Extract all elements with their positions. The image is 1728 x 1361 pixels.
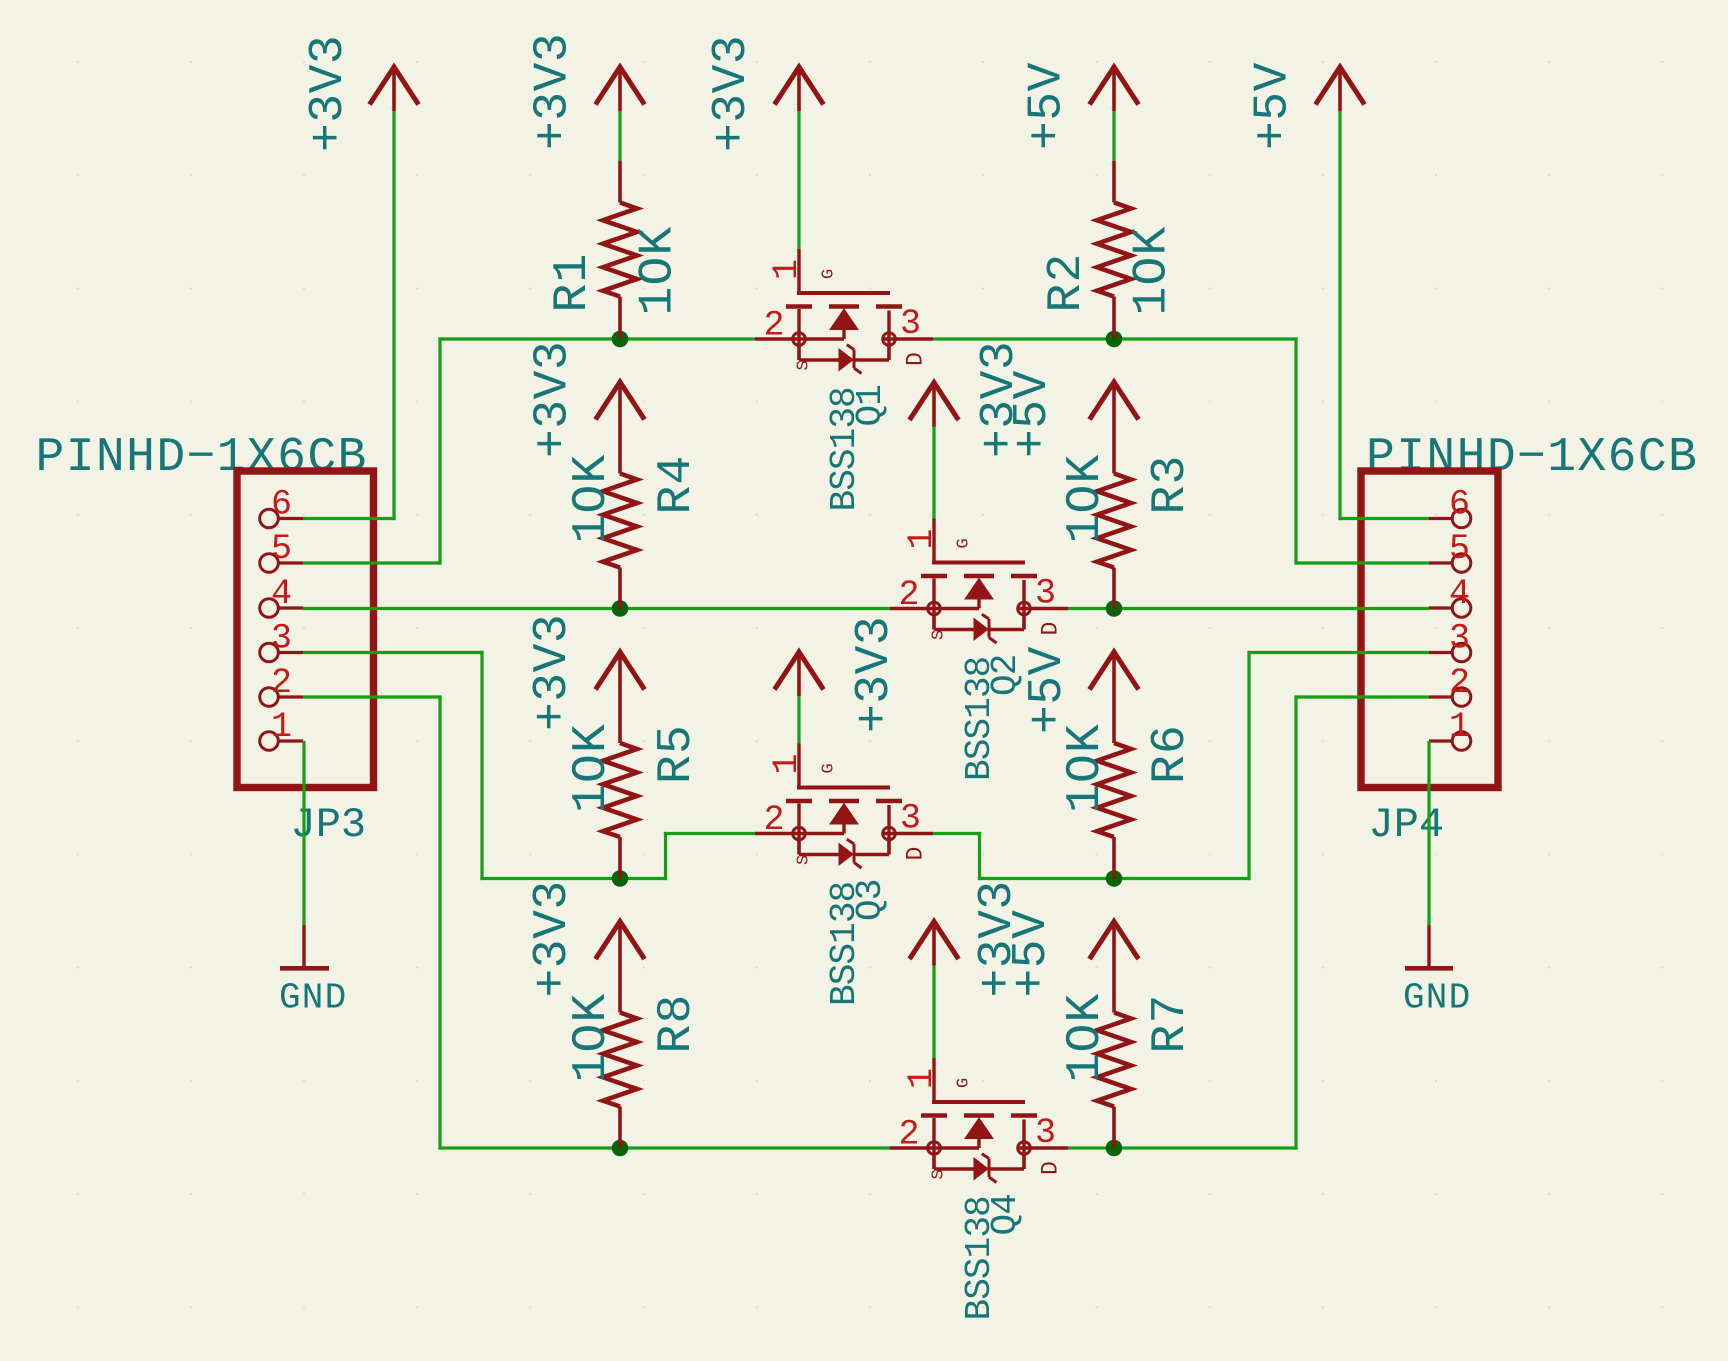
junction R4/row2 — [612, 600, 629, 617]
svg-text:+5V: +5V — [1006, 370, 1060, 458]
svg-text:3: 3 — [1449, 619, 1470, 659]
svg-text:1OK: 1OK — [565, 723, 619, 813]
pin 5 of JP3 — [279, 561, 303, 564]
wire Q4 gate net — [932, 966, 935, 1059]
svg-text:GND: GND — [1403, 978, 1471, 1019]
svg-text:1OK: 1OK — [1059, 453, 1113, 543]
pin 3 of JP3 — [279, 651, 303, 654]
svg-text:+5V: +5V — [1247, 62, 1301, 150]
svg-text:PINHD−1X6CB: PINHD−1X6CB — [36, 431, 368, 485]
resistor R8 10K — [603, 1013, 637, 1107]
svg-text:2: 2 — [271, 663, 292, 703]
svg-text:R3: R3 — [1144, 454, 1198, 514]
power symbol +5V A4 (R2) — [1090, 67, 1139, 105]
junction R7/row4 — [1106, 1140, 1123, 1157]
svg-text:R8: R8 — [650, 993, 704, 1053]
wire Q3 gate net — [797, 696, 800, 744]
resistor R4 10K — [603, 474, 637, 568]
svg-text:3: 3 — [271, 619, 292, 659]
pin 1 of JP3 — [279, 739, 303, 742]
power symbol +5V A5 (JP4 pin6) — [1316, 67, 1365, 105]
svg-text:1: 1 — [902, 528, 942, 549]
resistor R7 10K — [1097, 1013, 1131, 1107]
resistor R1 10K — [618, 161, 622, 203]
svg-text:4: 4 — [1449, 574, 1470, 614]
svg-text:GND: GND — [279, 978, 347, 1019]
svg-text:4: 4 — [271, 574, 292, 614]
svg-text:S: S — [795, 360, 814, 370]
pin 3 of JP4 — [1429, 651, 1452, 654]
svg-text:5: 5 — [271, 529, 292, 569]
wire row4 left segment — [438, 1146, 890, 1149]
wire row4 right segment (Q4 drain to JP4 pin2) — [1068, 1146, 1298, 1149]
pin 1 of JP4 — [1429, 739, 1452, 742]
svg-text:2: 2 — [899, 1115, 920, 1155]
wire Q2 gate net — [932, 427, 935, 519]
transistor Q1 BSS138 — [797, 249, 800, 293]
pin 5 of JP4 — [1429, 561, 1452, 564]
svg-text:G: G — [820, 763, 839, 773]
power symbol +3V3 A12 (R8) — [596, 922, 645, 960]
wire row2 (JP3 pin4 to Q2 source) — [303, 607, 890, 610]
transistor Q3 BSS138 — [797, 744, 800, 788]
svg-text:JP4: JP4 — [1369, 801, 1445, 849]
power symbol +5V A8 (R3) — [1090, 382, 1139, 420]
wire row3 left segment — [480, 877, 667, 880]
resistor R2 10K — [1112, 161, 1116, 203]
resistor R5 10K — [603, 743, 637, 837]
svg-text:+5V: +5V — [1005, 910, 1059, 998]
svg-text:Q4: Q4 — [985, 1194, 1026, 1235]
svg-text:1: 1 — [767, 259, 807, 280]
transistor Q2 BSS138 — [932, 519, 935, 563]
svg-text:Q1: Q1 — [850, 385, 891, 426]
power symbol +3V3 A3 (Q1 gate) — [775, 67, 824, 105]
power symbol +5V A11 (R6) — [1090, 652, 1139, 690]
svg-text:6: 6 — [271, 485, 292, 525]
wire R2 top — [1112, 111, 1115, 161]
svg-text:+5V: +5V — [1021, 62, 1075, 150]
power symbol +3V3 A6 (R4) — [596, 382, 645, 420]
svg-text:1OK: 1OK — [1059, 723, 1113, 813]
power symbol +3V3 A9 (R5) — [596, 652, 645, 690]
wire JP3 pin3 to riser 482 down to row3 — [303, 651, 484, 654]
svg-text:+5V: +5V — [1021, 646, 1075, 734]
junction R8/row4 — [612, 1140, 629, 1157]
svg-text:Q2: Q2 — [985, 655, 1026, 696]
wire +5V arrow A5 down to JP4 pin6 — [1338, 111, 1341, 520]
junction R2/row1 — [1106, 331, 1123, 348]
svg-text:R1: R1 — [546, 252, 600, 312]
svg-text:R5: R5 — [650, 724, 704, 784]
pin 2 of JP4 — [1429, 695, 1452, 698]
svg-text:2: 2 — [899, 575, 920, 615]
svg-text:G: G — [955, 1078, 974, 1088]
svg-text:D: D — [1038, 1161, 1064, 1175]
junction R1/row1 — [612, 331, 629, 348]
svg-text:R7: R7 — [1144, 993, 1198, 1053]
svg-text:1OK: 1OK — [1059, 992, 1113, 1082]
wire row1 left segment (riser440 to Q1 source) — [438, 337, 756, 340]
junction R3/row2 — [1106, 600, 1123, 617]
svg-text:S: S — [795, 855, 814, 865]
power symbol +3V3 A13 (Q4 gate) — [910, 922, 959, 960]
wire JP3 pin6 to +3V3 arrow A1 — [303, 517, 396, 520]
svg-text:2: 2 — [1449, 663, 1470, 703]
pin 2 of JP3 — [279, 695, 303, 698]
svg-text:R2: R2 — [1040, 252, 1094, 312]
svg-text:+3V3: +3V3 — [527, 33, 581, 150]
svg-text:PINHD−1X6CB: PINHD−1X6CB — [1366, 431, 1698, 485]
svg-text:6: 6 — [1449, 485, 1470, 525]
svg-text:1: 1 — [902, 1068, 942, 1089]
power symbol +5V A14 (R7) — [1090, 922, 1139, 960]
wire JP3 pin2 to riser 440 down to row4 — [303, 695, 442, 698]
power symbol +3V3 A7 (Q2 gate) — [910, 383, 959, 421]
svg-text:3: 3 — [900, 304, 921, 344]
svg-text:3: 3 — [1035, 574, 1056, 614]
power symbol +3V3 A10 (Q3 gate) — [775, 652, 824, 690]
svg-text:+3V3: +3V3 — [527, 341, 581, 458]
svg-text:1: 1 — [1449, 707, 1470, 747]
wire Q1 gate net — [797, 111, 800, 250]
svg-text:2: 2 — [764, 306, 785, 346]
svg-text:3: 3 — [1035, 1113, 1056, 1153]
wire JP3 pin5 to riser 440 — [303, 561, 442, 564]
transistor Q4 BSS138 — [932, 1058, 935, 1102]
svg-text:D: D — [1038, 622, 1064, 636]
svg-text:+3V3: +3V3 — [848, 616, 902, 733]
wire row1 right segment (Q1 drain to JP4 pin5) — [933, 337, 1298, 340]
wire row3 right segment (Q3 drain to JP4 pin3) — [933, 832, 981, 835]
pin 6 of JP3 — [279, 517, 303, 520]
svg-text:R4: R4 — [650, 454, 704, 514]
svg-text:D: D — [903, 352, 929, 366]
svg-text:G: G — [820, 269, 839, 279]
svg-text:D: D — [903, 847, 929, 861]
svg-text:JP3: JP3 — [291, 801, 367, 849]
svg-text:S: S — [930, 1169, 949, 1179]
svg-text:R6: R6 — [1144, 724, 1198, 784]
svg-text:1: 1 — [271, 707, 292, 747]
svg-text:1OK: 1OK — [565, 992, 619, 1082]
svg-text:1OK: 1OK — [565, 453, 619, 543]
svg-text:Q3: Q3 — [850, 880, 891, 921]
junction R6/row3 — [1106, 870, 1123, 887]
power symbol +3V3 A1 (JP3 pin6) — [370, 67, 419, 105]
wire row2 right (Q2 drain to JP4 pin4) — [1068, 607, 1429, 610]
wire R1 top — [618, 111, 621, 161]
wire JP3 pin1 down to GND — [302, 741, 305, 925]
ground GND (right, JP4 pin1) — [1427, 925, 1430, 966]
svg-text:1OK: 1OK — [632, 225, 686, 315]
pin 4 of JP4 — [1429, 606, 1452, 609]
ground GND (left, JP3 pin1) — [302, 925, 305, 966]
junction R5/row3 — [612, 870, 629, 887]
power symbol +3V3 A2 (R1) — [596, 67, 645, 105]
resistor R6 10K — [1097, 743, 1131, 837]
svg-text:+3V3: +3V3 — [302, 35, 356, 152]
svg-text:G: G — [955, 538, 974, 548]
svg-text:1: 1 — [767, 753, 807, 774]
svg-text:S: S — [930, 630, 949, 640]
svg-text:+3V3: +3V3 — [705, 35, 759, 152]
svg-text:+3V3: +3V3 — [526, 614, 580, 731]
svg-text:5: 5 — [1449, 529, 1470, 569]
svg-text:2: 2 — [764, 800, 785, 840]
resistor R3 10K — [1097, 474, 1131, 568]
pin 4 of JP3 — [279, 606, 303, 609]
wire JP4 pin1 down to GND — [1427, 741, 1430, 925]
svg-text:1OK: 1OK — [1126, 225, 1180, 315]
pin 6 of JP4 — [1429, 517, 1452, 520]
svg-text:+3V3: +3V3 — [526, 880, 580, 997]
svg-text:3: 3 — [900, 799, 921, 839]
